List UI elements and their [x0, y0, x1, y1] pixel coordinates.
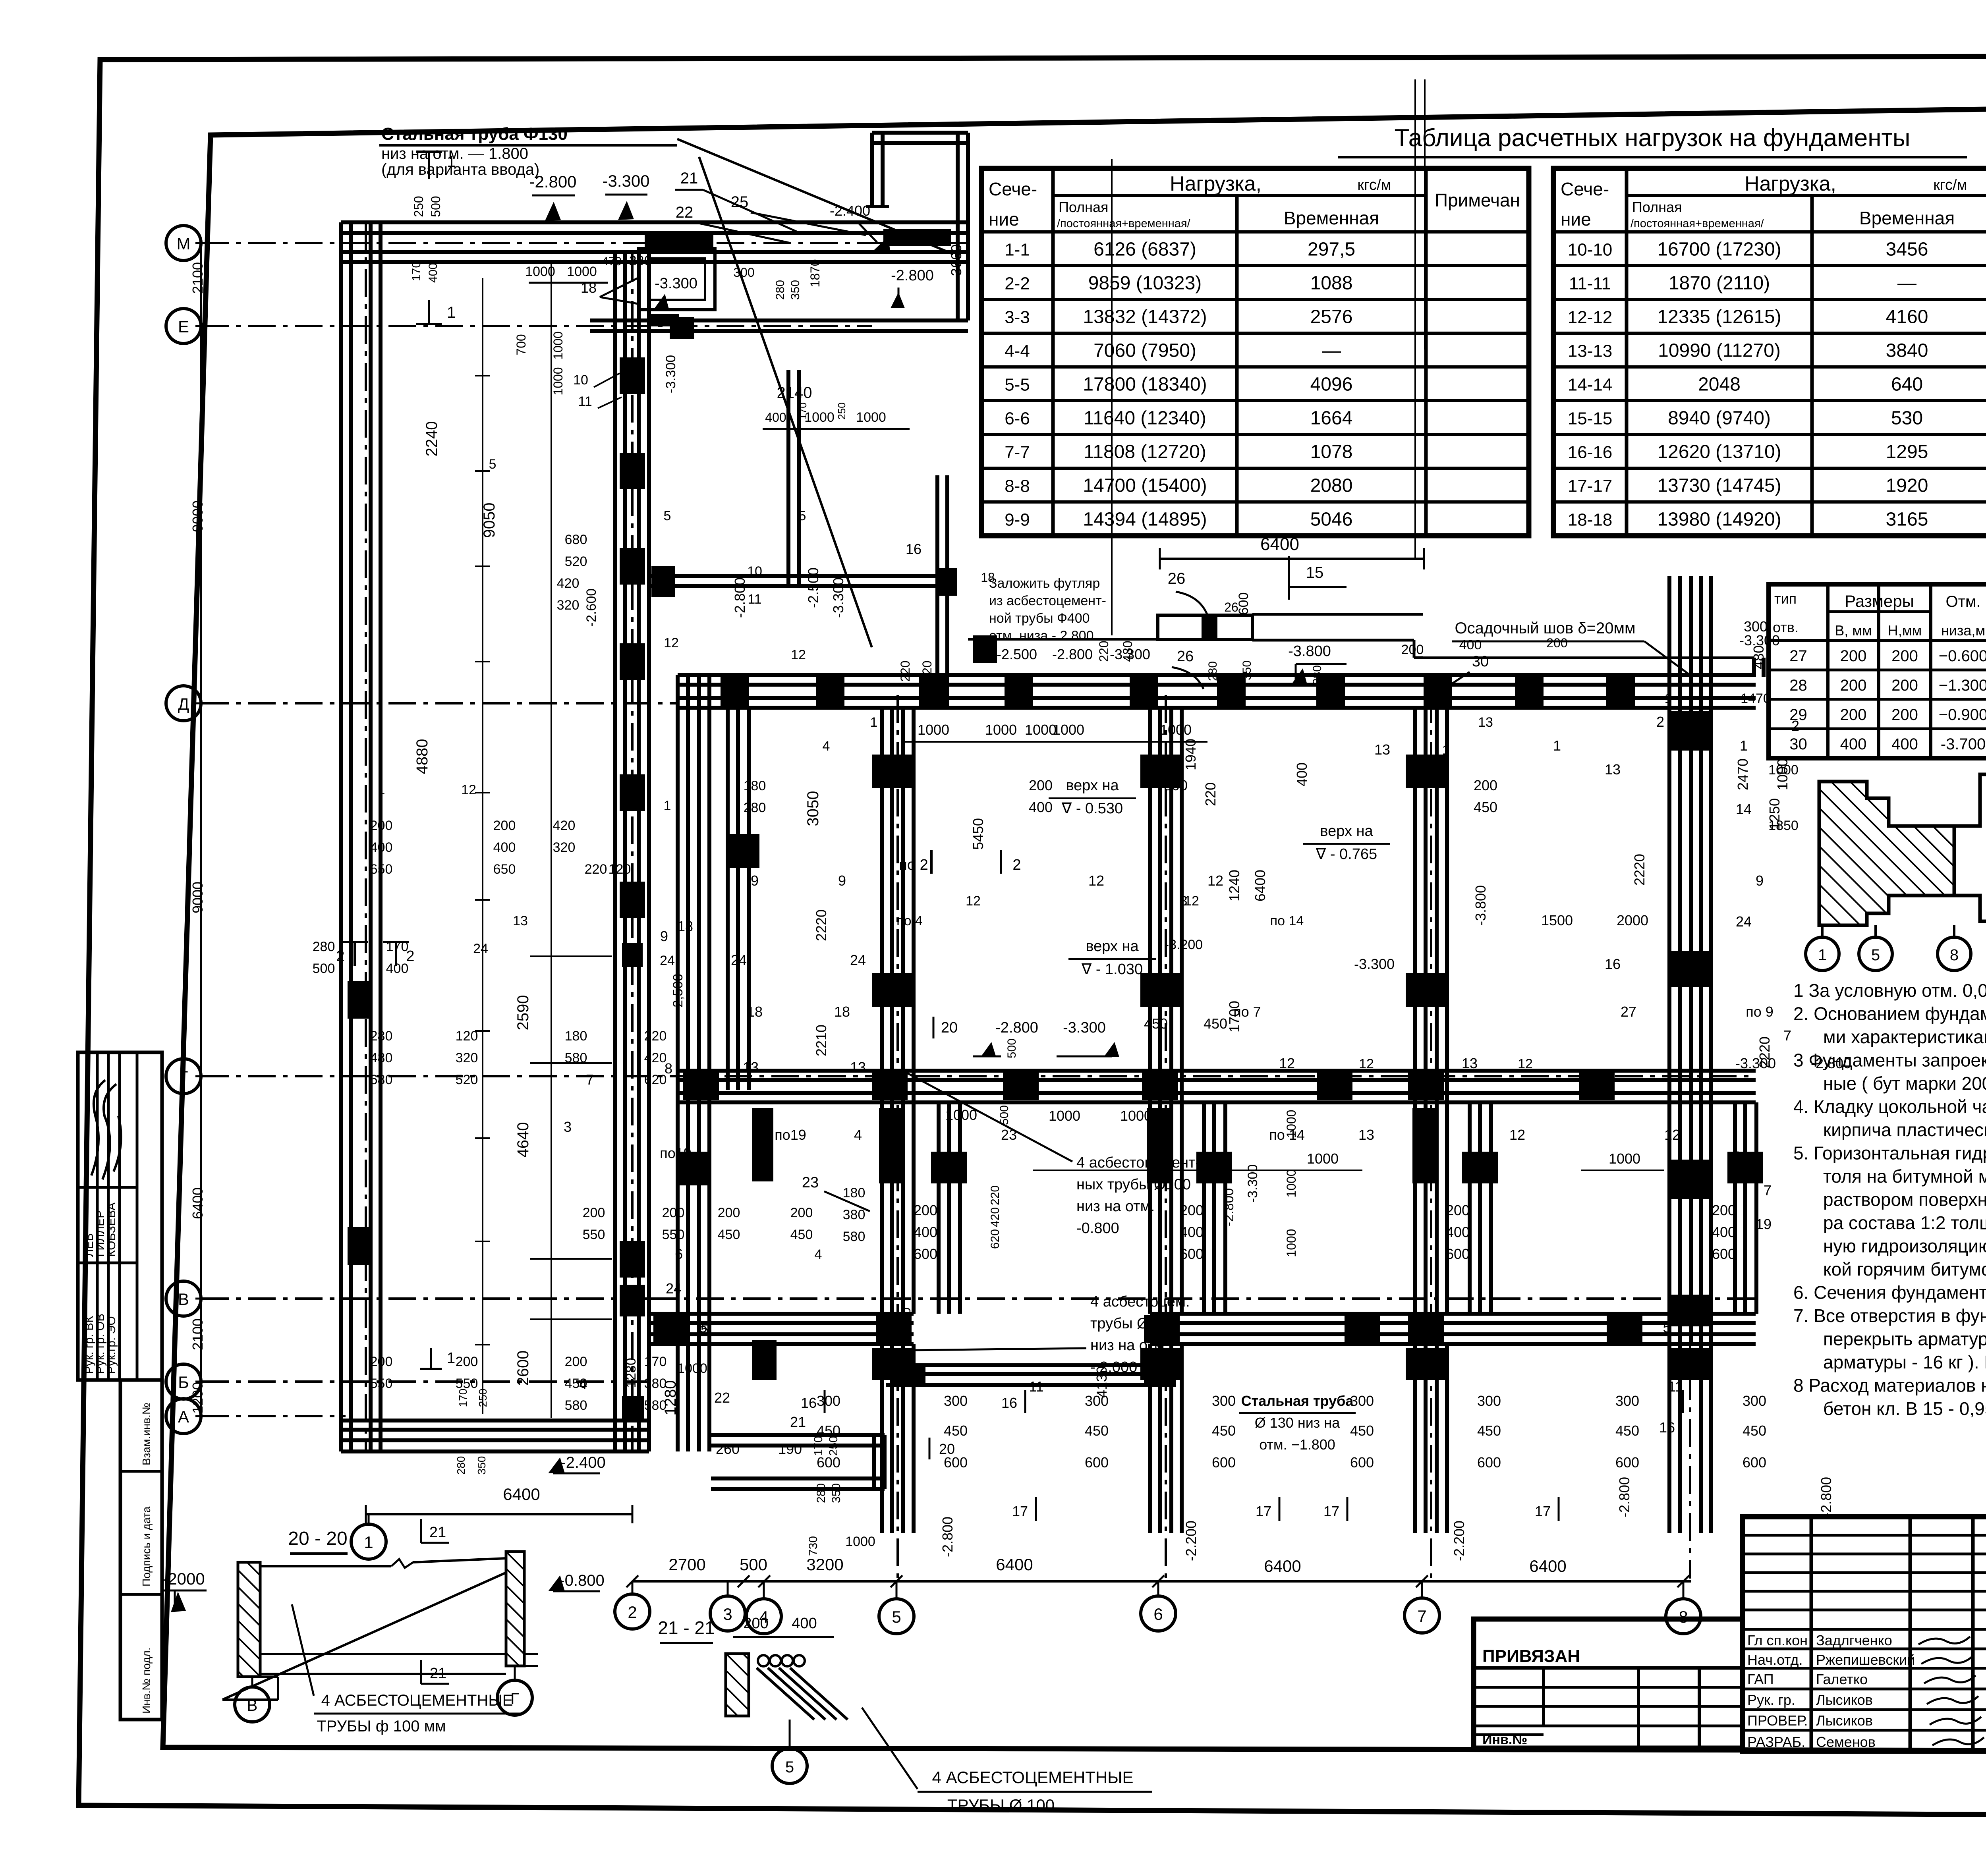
svg-text:-2.400: -2.400 — [830, 203, 870, 219]
svg-text:220: 220 — [989, 1185, 1002, 1205]
svg-text:Гл сп.кон: Гл сп.кон — [1747, 1632, 1808, 1648]
svg-text:Временная: Временная — [1284, 208, 1379, 228]
svg-text:−0.900: −0.900 — [1939, 706, 1986, 724]
svg-text:450: 450 — [1615, 1422, 1639, 1439]
svg-text:4: 4 — [823, 739, 830, 754]
svg-text:15: 15 — [1306, 564, 1324, 581]
svg-text:-2.800: -2.800 — [529, 172, 576, 191]
svg-text:470: 470 — [602, 255, 622, 268]
svg-text:7. Все отверстия в фундам: 7. Все отверстия в фундаментах шириной д… — [1793, 1305, 1986, 1326]
svg-text:Полная: Полная — [1632, 199, 1682, 215]
svg-text:по 4: по 4 — [896, 913, 923, 928]
svg-text:12: 12 — [966, 894, 981, 909]
connector wall x2360 — [935, 475, 939, 708]
svg-text:400: 400 — [427, 263, 440, 283]
main body top wall — [678, 673, 1756, 677]
svg-text:11640 (12340): 11640 (12340) — [1084, 408, 1206, 429]
svg-text:1-1: 1-1 — [1005, 240, 1030, 260]
svg-text:Временная: Временная — [1859, 208, 1955, 228]
svg-text:ные ( бут марки 200, бетон: ные ( бут марки 200, бетон кл. В 7,5 ) — [1823, 1073, 1986, 1094]
svg-text:600: 600 — [1477, 1454, 1501, 1471]
svg-text:600: 600 — [1085, 1454, 1109, 1471]
svg-text:-3.300: -3.300 — [830, 577, 846, 618]
svg-text:26: 26 — [1224, 600, 1238, 614]
svg-text:24: 24 — [666, 1280, 682, 1297]
svg-text:2210: 2210 — [813, 1025, 829, 1056]
svg-text:24: 24 — [731, 952, 747, 968]
wing interior dim leader lines — [482, 278, 483, 1414]
bottom axis dimension chain — [366, 1513, 632, 1515]
svg-text:6: 6 — [675, 1246, 683, 1262]
svg-text:200: 200 — [1891, 647, 1918, 665]
svg-text:200: 200 — [1712, 1202, 1736, 1218]
svg-text:6400: 6400 — [1260, 535, 1299, 554]
svg-text:650: 650 — [370, 862, 393, 877]
svg-text:13: 13 — [1478, 715, 1493, 730]
svg-text:2220: 2220 — [1756, 1036, 1773, 1068]
svg-text:20 - 20: 20 - 20 — [288, 1528, 347, 1549]
svg-text:420: 420 — [989, 1207, 1002, 1227]
svg-text:17: 17 — [1323, 1503, 1339, 1519]
svg-text:Д: Д — [178, 695, 189, 713]
svg-text:верх на: верх на — [1320, 823, 1373, 840]
svg-text:А: А — [178, 1407, 189, 1426]
load table 1 (sections 1-9) — [981, 168, 1529, 536]
svg-text:400: 400 — [1712, 1224, 1736, 1240]
axis lines horizontal — [201, 242, 968, 244]
svg-text:15-15: 15-15 — [1568, 409, 1613, 428]
svg-text:220: 220 — [1202, 782, 1219, 806]
axis lines vertical — [365, 222, 367, 1451]
svg-text:9859 (10323): 9859 (10323) — [1088, 273, 1202, 294]
svg-text:200: 200 — [1891, 706, 1918, 724]
svg-text:верх на: верх на — [1086, 938, 1139, 955]
svg-text:12: 12 — [664, 635, 679, 650]
interior wall axis 3 — [726, 708, 730, 1090]
svg-text:11: 11 — [1668, 1378, 1683, 1395]
svg-text:280: 280 — [1206, 661, 1219, 681]
svg-text:1000: 1000 — [1284, 1169, 1298, 1197]
svg-text:7: 7 — [1417, 1607, 1426, 1625]
svg-text:200: 200 — [1446, 1202, 1470, 1218]
svg-text:380: 380 — [843, 1207, 865, 1222]
svg-text:Осадочный шов δ=20мм: Осадочный шов δ=20мм — [1455, 620, 1635, 637]
svg-text:2-2: 2-2 — [1005, 274, 1030, 293]
svg-text:320: 320 — [456, 1050, 478, 1065]
svg-text:18: 18 — [981, 570, 995, 585]
svg-text:1: 1 — [1818, 946, 1827, 964]
svg-text:Рук.гр. ЭО: Рук.гр. ЭО — [105, 1316, 118, 1374]
svg-text:-3.200: -3.200 — [1165, 937, 1203, 952]
svg-text:толя на битумной мастике,: толя на битумной мастике, укладываемых п… — [1823, 1166, 1986, 1187]
svg-text:13980 (14920): 13980 (14920) — [1657, 509, 1781, 530]
svg-text:500: 500 — [313, 961, 335, 976]
svg-text:12: 12 — [1279, 1055, 1295, 1071]
svg-text:-3.300: -3.300 — [1063, 1019, 1106, 1036]
svg-text:12: 12 — [791, 647, 806, 662]
svg-text:27: 27 — [1621, 1004, 1636, 1020]
svg-text:4 асбестоцемент-: 4 асбестоцемент- — [1076, 1154, 1200, 1171]
svg-text:600: 600 — [1446, 1246, 1470, 1262]
svg-text:200: 200 — [914, 1202, 937, 1218]
svg-text:600: 600 — [1180, 1246, 1204, 1262]
svg-text:4130: 4130 — [1093, 1366, 1110, 1398]
svg-text:1000: 1000 — [804, 410, 835, 425]
svg-text:-2,500: -2,500 — [670, 974, 686, 1012]
svg-text:200: 200 — [1029, 777, 1053, 793]
svg-text:300: 300 — [733, 265, 754, 280]
futlyar bar figure — [1160, 558, 1424, 560]
room dim lines — [902, 741, 1108, 743]
svg-text:250: 250 — [411, 196, 426, 217]
svg-text:17: 17 — [1256, 1503, 1271, 1519]
left wing outer wall west — [339, 222, 343, 1451]
svg-text:-2.200: -2.200 — [1183, 1521, 1199, 1561]
svg-text:1240: 1240 — [1226, 870, 1242, 901]
svg-text:-2.800: -2.800 — [891, 267, 934, 284]
svg-text:2470: 2470 — [1735, 759, 1751, 790]
svg-text:Е: Е — [178, 317, 189, 336]
svg-text:ной трубы Ф400: ной трубы Ф400 — [989, 611, 1090, 626]
svg-text:-3.300: -3.300 — [602, 172, 649, 190]
svg-text:250: 250 — [836, 402, 848, 419]
svg-text:Стальная труба: Стальная труба — [1241, 1393, 1354, 1409]
svg-text:5. Горизонтальная гидроизоля: 5. Горизонтальная гидроизоляция на ∇ - 0… — [1793, 1143, 1986, 1164]
svg-text:200: 200 — [1546, 636, 1567, 650]
svg-text:В: В — [247, 1697, 258, 1714]
svg-text:-2.500: -2.500 — [805, 567, 821, 608]
svg-text:/постоянная+временная/: /постоянная+временная/ — [1631, 217, 1764, 230]
svg-text:12: 12 — [1207, 872, 1223, 889]
svg-text:2: 2 — [628, 1603, 637, 1621]
svg-text:13: 13 — [743, 1059, 759, 1075]
svg-text:-2.500: -2.500 — [997, 646, 1037, 662]
svg-text:200: 200 — [370, 818, 393, 833]
svg-text:Галетко: Галетко — [1816, 1671, 1868, 1687]
svg-text:2140: 2140 — [777, 384, 812, 401]
svg-text:9: 9 — [838, 872, 846, 889]
svg-text:ми характеристиками: Ψн=24°;: ми характеристиками: Ψн=24°; Сн=0,13 кг/… — [1823, 1027, 1986, 1047]
svg-text:-0.800: -0.800 — [1076, 1220, 1119, 1237]
svg-text:11-11: 11-11 — [1569, 274, 1611, 293]
svg-text:600: 600 — [1615, 1454, 1639, 1471]
right top extension — [968, 638, 1158, 641]
svg-text:3-3: 3-3 — [1005, 308, 1030, 327]
svg-text:12: 12 — [1518, 1056, 1533, 1071]
svg-text:18: 18 — [834, 1004, 850, 1020]
svg-text:1000: 1000 — [677, 1361, 707, 1376]
svg-text:640: 640 — [1891, 374, 1923, 395]
wing openings blobs west wall — [348, 981, 372, 1019]
svg-text:530: 530 — [1891, 408, 1923, 429]
main body mid wall — [678, 1069, 1756, 1073]
interior wall axis 7 — [1413, 708, 1417, 1314]
svg-text:200: 200 — [1840, 647, 1867, 665]
svg-text:-2.800: -2.800 — [1811, 1055, 1851, 1071]
svg-text:16-16: 16-16 — [1568, 443, 1613, 462]
svg-text:280: 280 — [629, 253, 652, 268]
svg-text:16: 16 — [801, 1395, 817, 1411]
svg-text:450: 450 — [1144, 1015, 1168, 1032]
svg-text:2: 2 — [336, 948, 344, 965]
svg-text:450: 450 — [944, 1422, 968, 1439]
svg-text:16: 16 — [1001, 1395, 1017, 1411]
stamp strip table — [78, 1052, 162, 1380]
svg-text:1000: 1000 — [1768, 762, 1799, 778]
axis line V through body — [649, 1297, 1756, 1300]
svg-text:бетон кл. В 15 - 0,95 м³ ;: бетон кл. В 15 - 0,95 м³ ; арматура: кл.… — [1823, 1398, 1986, 1419]
svg-text:Нач.отд.: Нач.отд. — [1747, 1652, 1803, 1668]
wing openings blobs east wall — [620, 357, 645, 394]
svg-text:2100: 2100 — [189, 1318, 206, 1350]
svg-text:700: 700 — [514, 334, 528, 355]
svg-text:2048: 2048 — [1698, 374, 1741, 395]
svg-text:2: 2 — [1012, 857, 1021, 873]
svg-text:13: 13 — [850, 1059, 866, 1075]
svg-text:5: 5 — [785, 1758, 794, 1776]
svg-text:22: 22 — [676, 204, 694, 221]
svg-text:по 9: по 9 — [1746, 1004, 1773, 1020]
svg-text:5: 5 — [892, 1608, 901, 1626]
svg-text:8: 8 — [1950, 946, 1959, 964]
svg-text:Лысиков: Лысиков — [1816, 1712, 1873, 1729]
svg-text:ПРОВЕР.: ПРОВЕР. — [1747, 1712, 1808, 1729]
svg-text:800: 800 — [1164, 777, 1188, 793]
svg-text:-3.300: -3.300 — [655, 275, 697, 292]
svg-text:кгс/м: кгс/м — [1357, 177, 1391, 193]
svg-text:6400: 6400 — [503, 1485, 540, 1504]
svg-text:по 7: по 7 — [1233, 1004, 1261, 1020]
svg-text:14-14: 14-14 — [1568, 375, 1613, 395]
svg-text:2080: 2080 — [1310, 475, 1353, 496]
svg-text:Сече-: Сече- — [1561, 179, 1609, 199]
svg-text:220: 220 — [585, 862, 607, 877]
svg-text:200: 200 — [1180, 1202, 1204, 1218]
svg-text:Рук. гр.: Рук. гр. — [1747, 1692, 1795, 1708]
svg-text:1500: 1500 — [1541, 912, 1573, 928]
svg-text:Таблица расчетных нагруз: Таблица расчетных нагрузок на фундаменты — [1395, 124, 1911, 152]
svg-text:10-10: 10-10 — [1568, 240, 1613, 260]
svg-text:6-6: 6-6 — [1005, 409, 1030, 428]
svg-text:4 АСБЕСТОЦЕМЕНТНЫЕ: 4 АСБЕСТОЦЕМЕНТНЫЕ — [932, 1768, 1134, 1787]
svg-text:120: 120 — [456, 1029, 478, 1044]
svg-text:550: 550 — [662, 1227, 685, 1242]
svg-text:21 - 21: 21 - 21 — [658, 1617, 715, 1638]
svg-text:170: 170 — [812, 1436, 825, 1456]
svg-text:280: 280 — [815, 1483, 828, 1503]
svg-text:-3.800: -3.800 — [1472, 885, 1489, 926]
svg-text:4160: 4160 — [1886, 307, 1928, 328]
svg-text:ную гидроизоляцию стен с: ную гидроизоляцию стен соприкасающихся с… — [1823, 1236, 1986, 1256]
svg-text:16: 16 — [1605, 956, 1621, 972]
svg-text:350: 350 — [1240, 660, 1254, 680]
svg-text:-2.800: -2.800 — [1616, 1477, 1632, 1517]
svg-text:-2.600: -2.600 — [584, 589, 599, 627]
main body west wall — [676, 675, 680, 1451]
svg-text:1: 1 — [1740, 737, 1748, 754]
svg-text:24: 24 — [850, 952, 866, 968]
svg-text:13: 13 — [1605, 761, 1621, 778]
svg-text:5: 5 — [799, 508, 806, 523]
svg-text:низ на отм.: низ на отм. — [1076, 1198, 1155, 1215]
svg-text:2: 2 — [1791, 718, 1799, 734]
svg-text:620: 620 — [644, 1072, 667, 1087]
svg-text:по19: по19 — [660, 1145, 692, 1161]
svg-text:Инв.№ подл.: Инв.№ подл. — [140, 1647, 153, 1714]
svg-text:400: 400 — [792, 1615, 817, 1632]
svg-text:13832 (14372): 13832 (14372) — [1083, 307, 1207, 328]
svg-text:600: 600 — [914, 1246, 937, 1262]
svg-text:13730 (14745): 13730 (14745) — [1657, 475, 1781, 496]
svg-text:1000: 1000 — [1160, 722, 1192, 738]
svg-text:1: 1 — [1442, 743, 1450, 758]
svg-text:Отм.: Отм. — [1945, 593, 1980, 610]
svg-text:300: 300 — [1212, 1393, 1236, 1409]
svg-text:4: 4 — [854, 1127, 862, 1143]
svg-text:перекрыть арматурой 5Ф 12 А: перекрыть арматурой 5Ф 12 АІ , заводя ее… — [1823, 1329, 1986, 1349]
svg-text:4: 4 — [815, 1247, 822, 1262]
svg-text:16: 16 — [1659, 1419, 1675, 1436]
svg-text:2: 2 — [1656, 714, 1664, 730]
svg-text:200: 200 — [1840, 677, 1867, 694]
svg-text:5450: 5450 — [970, 818, 986, 850]
interior wall axis 6 — [1148, 708, 1152, 1314]
svg-text:6400: 6400 — [996, 1555, 1033, 1574]
svg-text:2: 2 — [406, 948, 414, 965]
svg-text:500: 500 — [429, 196, 443, 217]
south wall opening blobs — [653, 1315, 689, 1343]
svg-text:1000: 1000 — [856, 410, 886, 425]
svg-text:14: 14 — [1736, 801, 1752, 817]
svg-text:КОБЗЕВА: КОБЗЕВА — [105, 1202, 118, 1257]
svg-text:13: 13 — [1462, 1055, 1478, 1071]
svg-text:400: 400 — [493, 840, 516, 855]
svg-text:Н,мм: Н,мм — [1888, 622, 1922, 639]
left wing wall east — [613, 254, 617, 1451]
svg-text:170: 170 — [644, 1354, 667, 1369]
svg-text:580: 580 — [565, 1050, 587, 1065]
svg-text:300: 300 — [817, 1393, 840, 1409]
svg-text:550: 550 — [370, 1376, 393, 1391]
svg-text:420: 420 — [553, 818, 576, 833]
svg-text:-2.800: -2.800 — [732, 577, 748, 618]
svg-text:400: 400 — [1446, 1224, 1470, 1240]
svg-text:1000: 1000 — [945, 1107, 977, 1123]
svg-text:Примечан: Примечан — [1435, 190, 1520, 210]
privyazan block — [1474, 1619, 1743, 1748]
interior wall axis 5 — [880, 708, 884, 1314]
svg-text:4 АСБЕСТОЦЕМЕНТНЫЕ: 4 АСБЕСТОЦЕМЕНТНЫЕ — [321, 1692, 513, 1709]
svg-text:450: 450 — [1743, 1422, 1766, 1439]
svg-text:-3.700: -3.700 — [1941, 735, 1986, 753]
svg-text:480: 480 — [1121, 641, 1135, 662]
svg-text:-3.300: -3.300 — [1354, 956, 1395, 972]
svg-text:5046: 5046 — [1310, 509, 1353, 530]
svg-text:5-5: 5-5 — [1005, 375, 1030, 395]
svg-text:450: 450 — [565, 1376, 587, 1391]
svg-text:1000: 1000 — [525, 264, 555, 279]
svg-text:300: 300 — [944, 1393, 968, 1409]
svg-text:Нагрузка,: Нагрузка, — [1170, 172, 1262, 195]
step wall bottom left of body — [711, 1433, 885, 1437]
svg-text:18: 18 — [747, 1004, 763, 1020]
svg-text:1000: 1000 — [918, 722, 949, 738]
svg-text:Сече-: Сече- — [989, 179, 1037, 199]
svg-text:1: 1 — [447, 153, 456, 170]
svg-text:—: — — [1897, 273, 1916, 294]
svg-text:(для варианта ввода): (для варианта ввода) — [381, 161, 539, 178]
svg-text:9000: 9000 — [189, 500, 206, 532]
svg-text:400: 400 — [1891, 735, 1918, 753]
svg-text:18: 18 — [677, 918, 693, 934]
main body south wall west segment — [649, 1312, 914, 1316]
svg-text:600: 600 — [817, 1454, 840, 1471]
svg-text:30: 30 — [1789, 735, 1807, 753]
svg-text:1280: 1280 — [624, 1358, 639, 1388]
svg-text:8 Расход материалов на ж: 8 Расход материалов на железобетонные по… — [1793, 1375, 1986, 1396]
svg-text:тип: тип — [1774, 591, 1797, 607]
svg-text:1: 1 — [1553, 737, 1561, 754]
svg-text:ТРУБЫ ф 100 мм: ТРУБЫ ф 100 мм — [317, 1718, 446, 1735]
svg-text:13: 13 — [513, 913, 528, 928]
svg-text:3: 3 — [1180, 894, 1188, 909]
svg-text:1: 1 — [1665, 691, 1672, 706]
svg-text:550: 550 — [583, 1227, 605, 1242]
svg-text:420: 420 — [644, 1050, 667, 1065]
svg-text:320: 320 — [557, 598, 580, 613]
connector wall x1985 — [786, 370, 790, 586]
left wing wall north — [341, 220, 968, 224]
svg-text:5: 5 — [1663, 1319, 1671, 1336]
svg-text:12: 12 — [461, 782, 476, 797]
svg-text:450: 450 — [718, 1227, 740, 1242]
svg-text:170: 170 — [457, 1389, 469, 1407]
svg-text:350: 350 — [475, 1456, 488, 1475]
svg-text:ние: ние — [989, 209, 1019, 230]
svg-text:∇ - 0.765: ∇ - 0.765 — [1316, 846, 1377, 863]
svg-text:280: 280 — [455, 1456, 467, 1475]
svg-text:300: 300 — [1744, 618, 1768, 635]
svg-text:680: 680 — [370, 1072, 393, 1087]
svg-text:26: 26 — [1177, 648, 1194, 665]
svg-text:9000: 9000 — [189, 882, 206, 913]
svg-text:600: 600 — [1743, 1454, 1766, 1471]
svg-text:6126 (6837): 6126 (6837) — [1093, 239, 1196, 260]
svg-text:-2.800: -2.800 — [1052, 646, 1093, 662]
svg-text:низа,м: низа,м — [1941, 622, 1985, 639]
svg-text:3050: 3050 — [804, 791, 822, 826]
svg-text:Нагрузка,: Нагрузка, — [1745, 172, 1836, 195]
svg-text:кирпича пластического прессо: кирпича пластического прессования — [1823, 1119, 1986, 1140]
svg-text:Б: Б — [178, 1373, 189, 1392]
svg-text:-3.800: -3.800 — [1288, 643, 1331, 660]
svg-text:по19: по19 — [775, 1127, 806, 1143]
svg-text:1: 1 — [447, 1350, 455, 1366]
title block — [1743, 1517, 1986, 1751]
svg-text:1000: 1000 — [845, 1534, 875, 1549]
svg-text:3840: 3840 — [1886, 340, 1928, 361]
svg-text:12: 12 — [1359, 1056, 1374, 1071]
svg-text:11808 (12720): 11808 (12720) — [1084, 442, 1206, 463]
svg-text:1000: 1000 — [567, 264, 597, 279]
svg-text:12: 12 — [1664, 1127, 1680, 1143]
mid wall opening blobs — [683, 1072, 719, 1100]
svg-text:трубы Ø 100: трубы Ø 100 — [1090, 1315, 1178, 1332]
svg-text:17-17: 17-17 — [1568, 477, 1613, 496]
stamp strip lower cells — [120, 1380, 162, 1720]
svg-text:200: 200 — [743, 1615, 768, 1632]
svg-text:400: 400 — [765, 410, 786, 425]
